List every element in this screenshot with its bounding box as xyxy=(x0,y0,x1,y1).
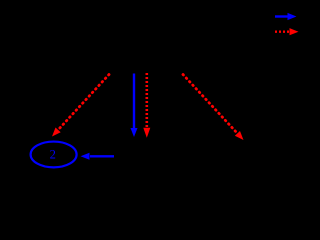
svg-text:2: 2 xyxy=(50,147,56,161)
blue solid arrow: middle node to ellipse 2 xyxy=(81,153,115,160)
blue ellipse around node 2 xyxy=(31,142,77,168)
legend red dotted arrow xyxy=(275,28,299,35)
red dotted arrow: top node to left node (ellipse 2) xyxy=(52,75,109,137)
red dotted arrow: top node straight down to middle node xyxy=(143,73,150,138)
blue solid arrow: top node straight down to middle node xyxy=(131,74,138,138)
red dotted arrow: top node to right node xyxy=(183,75,244,141)
legend blue solid arrow xyxy=(275,13,297,20)
